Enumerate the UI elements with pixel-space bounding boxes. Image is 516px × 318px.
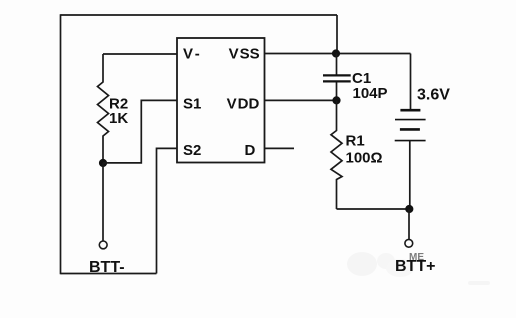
wire: V- pin to R2 top — [103, 53, 177, 55]
svg-text:1K: 1K — [109, 110, 128, 127]
IC U1 box — [177, 38, 265, 163]
svg-text:100Ω: 100Ω — [346, 150, 383, 167]
node: VSS junction dot — [332, 49, 340, 57]
svg-text:V-: V- — [183, 46, 200, 63]
wire: bottom horizontal to S2 net — [61, 273, 157, 275]
wire: VSS pin to battery top — [265, 53, 411, 55]
svg-text:VDD: VDD — [227, 95, 260, 112]
svg-text:S2: S2 — [183, 142, 201, 159]
resistor R1 — [331, 100, 342, 209]
node: BTT+ junction dot — [405, 205, 413, 213]
wire: top loop horizontal — [61, 14, 338, 16]
watermark — [347, 252, 490, 285]
resistor R2 — [98, 54, 109, 163]
svg-text:S1: S1 — [183, 95, 201, 112]
svg-text:D: D — [245, 142, 256, 159]
node: VDD junction dot — [332, 96, 340, 104]
wire: S1 pin left, down, to junction — [103, 100, 177, 162]
wire: top-right vertical down to VSS node — [336, 15, 338, 54]
wire: battery top vertical — [410, 54, 412, 110]
wire: S2 pin left and down to bottom wire — [157, 148, 178, 273]
svg-text:BTT-: BTT- — [89, 259, 125, 276]
battery BT1 plates — [400, 110, 421, 129]
capacitor C1 plates — [323, 75, 351, 81]
svg-text:BTT+: BTT+ — [395, 258, 435, 275]
wire: D pin stub — [265, 147, 295, 149]
wire: VDD pin to C1 bottom node — [265, 99, 337, 101]
node: R2 / S1 junction dot — [99, 159, 107, 167]
wire: junction down to BTT- terminal — [102, 163, 104, 241]
svg-text:104P: 104P — [353, 85, 388, 102]
svg-text:R1: R1 — [346, 133, 365, 150]
svg-text:3.6V: 3.6V — [417, 87, 450, 104]
wire: node down to BTT+ terminal — [408, 209, 410, 239]
terminal BTT+ open circle — [405, 239, 413, 247]
terminal BTT- open circle — [99, 241, 107, 249]
capacitor C1 top lead — [336, 54, 338, 75]
wire: left outer vertical — [60, 14, 62, 274]
wire: battery bottom vertical to node — [409, 141, 411, 209]
svg-text:VSS: VSS — [229, 46, 260, 63]
capacitor C1 bottom lead — [336, 82, 338, 100]
wire: R1 bottom to BTT+ node — [337, 208, 410, 210]
